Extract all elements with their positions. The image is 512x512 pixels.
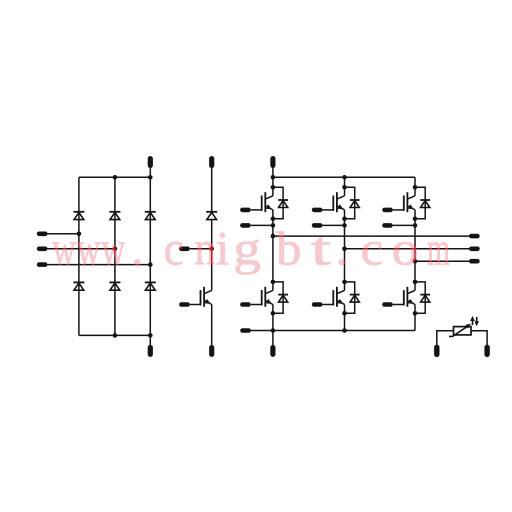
svg-text:.: . — [336, 223, 348, 276]
wire lower diode branch leg 1 — [273, 282, 283, 313]
terminal lower aux emitter leg 1 — [240, 328, 251, 333]
node lower collector junction leg 3 — [413, 280, 418, 285]
wire upper gate leg 1 — [251, 209, 262, 211]
wire lower diode branch leg 3 — [415, 282, 425, 313]
wire lower collector leg 3 — [414, 261, 416, 290]
terminal chopper output — [179, 247, 190, 252]
node inverter rail junction — [342, 175, 347, 180]
wire upper gate leg 2 — [323, 209, 334, 211]
terminal upper gate leg 1 — [240, 208, 251, 213]
wire lower emitter leg 1 — [272, 305, 274, 331]
transistor upper IGBT leg 2 — [332, 196, 334, 211]
diode lower freewheel leg 1 — [278, 294, 288, 296]
wire upper collector leg 2 — [344, 177, 346, 196]
terminal rectifier DC+ — [148, 156, 153, 168]
wire upper collector leg 1 — [272, 177, 274, 196]
node rectifier rail junction — [148, 333, 153, 338]
node upper aux junction leg 1 — [271, 223, 276, 228]
svg-text:o: o — [392, 223, 419, 276]
wire lower gate leg 3 — [393, 304, 404, 306]
terminal upper gate leg 2 — [312, 208, 323, 213]
transistor lower IGBT leg 3 — [403, 290, 405, 305]
node phase 3 junction — [413, 259, 418, 264]
wire phase 1 output — [273, 235, 470, 237]
node rectifier rail junction — [148, 175, 153, 180]
svg-text:g: g — [233, 223, 261, 276]
node lower collector junction leg 1 — [271, 280, 276, 285]
node upper collector junction leg 2 — [342, 185, 347, 190]
node inverter N junction leg 1 — [271, 328, 276, 333]
wire rectifier leg 1 — [78, 177, 80, 335]
wire thermistor lead 1 — [437, 331, 454, 346]
node lower emitter junction leg 1 — [271, 311, 276, 316]
wire upper aux emitter leg 3 — [393, 224, 415, 226]
NTC diagonal arrow — [449, 326, 469, 337]
node upper aux junction leg 2 — [342, 223, 347, 228]
wire chopper collector — [211, 167, 213, 212]
node upper emitter junction leg 3 — [413, 216, 418, 221]
wire inverter N- rail — [246, 330, 416, 332]
diode upper freewheel leg 1 — [278, 199, 288, 201]
terminal thermistor 1 — [434, 345, 439, 358]
terminal AC input R — [37, 232, 48, 237]
node inverter N junction leg 2 — [342, 328, 347, 333]
node upper emitter junction leg 1 — [271, 216, 276, 221]
diode D4 — [109, 281, 120, 283]
wire AC input S — [48, 248, 115, 250]
diode D1 — [73, 211, 84, 213]
wire lower collector leg 2 — [344, 249, 346, 291]
wire chopper mid — [211, 220, 213, 291]
wire upper emitter leg 1 — [272, 210, 274, 236]
terminal phase 2 — [469, 247, 480, 252]
svg-text:w: w — [77, 221, 101, 275]
svg-text:.: . — [131, 223, 143, 276]
terminal upper aux emitter leg 3 — [382, 223, 393, 228]
node AC-S junction — [113, 247, 118, 252]
svg-text:c: c — [164, 222, 184, 275]
node AC-T junction — [148, 262, 153, 267]
wire inverter P+ rail — [273, 176, 415, 178]
svg-text:n: n — [194, 222, 215, 275]
svg-text:m: m — [427, 221, 450, 275]
terminal inverter DC+ — [270, 156, 275, 168]
wire rectifier leg 2 — [114, 177, 116, 335]
terminal lower gate leg 1 — [240, 302, 251, 307]
node lower collector junction leg 2 — [342, 280, 347, 285]
wire chopper emitter — [211, 305, 213, 346]
node upper aux junction leg 3 — [413, 223, 418, 228]
node upper collector junction leg 1 — [271, 185, 276, 190]
wire lower diode branch leg 2 — [345, 282, 355, 313]
terminal thermistor 2 — [484, 345, 489, 358]
transistor upper IGBT leg 3 — [403, 196, 405, 211]
diode D7 chopper — [206, 211, 217, 213]
wire phase 3 output — [415, 260, 470, 262]
wire rectifier N- rail — [79, 334, 150, 336]
wire lower gate leg 2 — [323, 304, 334, 306]
wire lower collector leg 1 — [272, 236, 274, 290]
wire chopper output — [190, 248, 212, 250]
wire AC input T — [48, 264, 151, 266]
svg-text:t: t — [311, 222, 331, 275]
diode D5 — [145, 211, 156, 213]
svg-text:w: w — [101, 221, 125, 275]
transistor Q7 chopper IGBT — [200, 290, 202, 305]
svg-text:w: w — [52, 221, 76, 275]
svg-text:b: b — [276, 222, 301, 276]
node rectifier rail junction — [113, 333, 118, 338]
node phase 1 junction — [271, 234, 276, 239]
wire rectifier leg 3 — [149, 177, 151, 335]
svg-text:i: i — [216, 223, 229, 276]
wire AC input R — [48, 233, 79, 235]
wire rectifier P+ rail — [79, 176, 150, 178]
node rectifier rail junction — [113, 175, 118, 180]
wire thermistor lead 2 — [471, 331, 487, 346]
node lower emitter junction leg 3 — [413, 311, 418, 316]
terminal chopper gate — [179, 302, 190, 307]
terminal lower gate leg 3 — [382, 302, 393, 307]
watermark www.cnigbt.com (red-on-wires layer) — [52, 221, 450, 276]
node inverter rail junction — [271, 175, 276, 180]
terminal AC input T — [37, 262, 48, 267]
terminal chopper collector — [209, 156, 214, 168]
diode D2 — [73, 281, 84, 283]
transistor lower IGBT leg 1 — [261, 290, 263, 305]
node chopper output — [209, 247, 214, 252]
wire upper collector leg 3 — [414, 177, 416, 196]
diode upper freewheel leg 3 — [420, 199, 430, 201]
wire chopper gate — [190, 304, 201, 306]
diode lower freewheel leg 2 — [350, 294, 360, 296]
watermark www.cnigbt.com (pink-on-white layer) — [52, 221, 450, 276]
terminal chopper emitter — [209, 345, 214, 357]
wire lower emitter leg 3 — [414, 305, 416, 331]
transistor upper IGBT leg 1 — [261, 196, 263, 211]
wire upper diode branch leg 2 — [345, 187, 355, 218]
terminal phase 1 — [469, 234, 480, 239]
node phase 2 junction — [342, 247, 347, 252]
wire upper diode branch leg 1 — [273, 187, 283, 218]
wire upper aux emitter leg 2 — [323, 224, 345, 226]
resistor NTC thermistor body — [454, 327, 472, 335]
svg-text:c: c — [361, 222, 383, 276]
diode lower freewheel leg 3 — [420, 294, 430, 296]
diode D6 — [145, 281, 156, 283]
diode D3 — [109, 211, 120, 213]
wire phase 2 output — [345, 248, 470, 250]
wire upper gate leg 3 — [393, 209, 404, 211]
node lower emitter junction leg 2 — [342, 311, 347, 316]
node AC-R junction — [77, 232, 82, 237]
wire lower emitter leg 2 — [344, 305, 346, 331]
terminal upper gate leg 3 — [382, 208, 393, 213]
terminal AC input S — [37, 247, 48, 252]
NTC up-down arrows — [472, 319, 474, 325]
wire lower gate leg 1 — [251, 304, 262, 306]
terminal upper aux emitter leg 2 — [312, 223, 323, 228]
terminal lower gate leg 2 — [312, 302, 323, 307]
terminal rectifier DC- — [148, 345, 153, 357]
terminal upper aux emitter leg 1 — [240, 223, 251, 228]
wire upper emitter leg 3 — [414, 210, 416, 261]
terminal inverter DC- — [272, 331, 274, 346]
transistor lower IGBT leg 2 — [332, 290, 334, 305]
wire upper diode branch leg 3 — [415, 187, 425, 218]
wire upper emitter leg 2 — [344, 210, 346, 249]
wire upper aux emitter leg 1 — [251, 224, 273, 226]
node upper emitter junction leg 2 — [342, 216, 347, 221]
diode upper freewheel leg 2 — [350, 199, 360, 201]
node upper collector junction leg 3 — [413, 185, 418, 190]
terminal phase 3 — [469, 259, 480, 264]
